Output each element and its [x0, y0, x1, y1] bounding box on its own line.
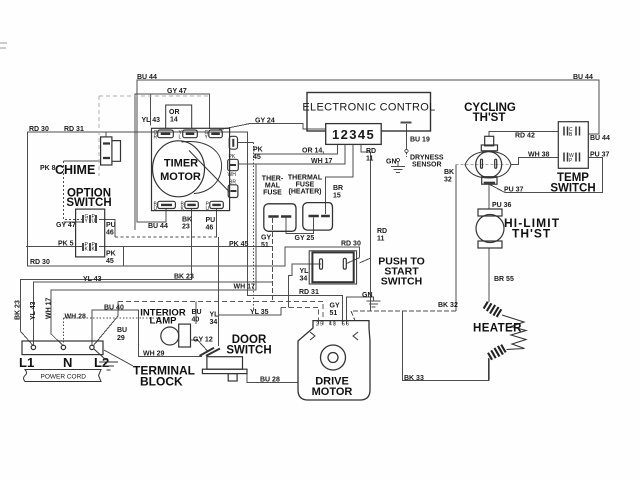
timer tiny pin letters	[154, 130, 237, 212]
svg-text:40: 40	[192, 317, 200, 324]
dashed console boundary	[99, 96, 209, 176]
svg-text:PU 37: PU 37	[504, 187, 524, 194]
terminal block TB	[22, 341, 133, 366]
svg-text:BU: BU	[192, 309, 202, 316]
svg-text:GN: GN	[362, 292, 373, 299]
svg-text:U: U	[154, 206, 158, 212]
svg-text:RD 30: RD 30	[341, 241, 361, 248]
svg-text:PK 8: PK 8	[40, 165, 56, 172]
svg-text:RD: RD	[366, 148, 376, 155]
svg-text:12345: 12345	[332, 127, 375, 142]
svg-text:23: 23	[182, 224, 190, 231]
svg-text:34: 34	[210, 319, 218, 326]
svg-text:46: 46	[206, 225, 214, 232]
svg-text:PU 36: PU 36	[492, 202, 512, 209]
svg-text:(HEATER): (HEATER)	[289, 189, 322, 196]
svg-text:51: 51	[330, 310, 338, 317]
wire GY 24 (timer to EC)	[218, 124, 326, 131]
svg-text:BU 44: BU 44	[148, 223, 168, 230]
wire BU 19 / dryness sensor	[406, 124, 408, 149]
svg-text:PU 37: PU 37	[590, 152, 610, 159]
svg-text:MOTOR: MOTOR	[160, 171, 201, 183]
wire PK 45 (option to timer)	[99, 246, 273, 248]
svg-text:YL: YL	[210, 312, 220, 319]
wire BK 32 (cycling th'st to motor)	[456, 164, 518, 166]
svg-text:GY 47: GY 47	[56, 222, 76, 229]
svg-text:BK: BK	[182, 217, 192, 224]
svg-text:5 6: 5 6	[342, 321, 349, 327]
svg-text:SWITCH: SWITCH	[550, 183, 595, 195]
svg-text:LAMP: LAMP	[150, 316, 178, 327]
wire BU 44 top (timer to temp switch)	[137, 80, 599, 222]
svg-text:51: 51	[261, 242, 269, 249]
svg-text:OR 14,: OR 14,	[302, 148, 324, 155]
EC connector 1 2 3 4 5	[326, 124, 382, 145]
cycling thermostat	[465, 136, 511, 184]
svg-text:YL 43: YL 43	[83, 276, 102, 283]
svg-text:WH 17: WH 17	[311, 158, 333, 165]
svg-text:U: U	[92, 219, 96, 225]
svg-text:TIMER: TIMER	[164, 158, 198, 170]
ground symbol terminal block	[94, 349, 118, 370]
svg-text:THERMAL: THERMAL	[288, 175, 323, 182]
timer top terminals	[158, 130, 223, 138]
svg-text:POWER CORD: POWER CORD	[41, 374, 87, 381]
svg-text:BR: BR	[333, 185, 343, 192]
svg-text:WH: WH	[228, 172, 237, 178]
timer bottom terminals	[158, 201, 224, 208]
svg-text:GY 24: GY 24	[255, 118, 275, 125]
svg-text:U: U	[206, 206, 210, 212]
svg-text:46: 46	[106, 230, 114, 237]
svg-text:34: 34	[300, 276, 308, 283]
wire RD 30 (chime to push-to-start)	[28, 132, 360, 266]
thermal fuse heater F2	[303, 203, 333, 231]
svg-text:45: 45	[253, 154, 261, 161]
svg-text:N: N	[63, 355, 72, 370]
ground symbol sensor	[391, 167, 405, 173]
wire GY 51 (thermal fuse to motor)	[272, 218, 274, 301]
svg-text:BK 23: BK 23	[15, 300, 22, 320]
wire WH 28 (N to lamp, dotted)	[63, 318, 160, 346]
wire lamp hot drop	[195, 301, 197, 324]
chime C1	[101, 137, 121, 165]
svg-text:BR: BR	[229, 180, 236, 186]
svg-text:RD 42: RD 42	[515, 133, 535, 140]
wire PU 46 (option switch to timer, dashed)	[99, 219, 115, 237]
wire BR 55 (hi-limit to heater)	[488, 248, 490, 302]
wire BK 23 (timer to terminal L1)	[20, 209, 191, 347]
svg-text:GN: GN	[386, 159, 397, 166]
svg-text:PK 5: PK 5	[58, 241, 74, 248]
svg-text:BK 32: BK 32	[438, 302, 458, 309]
svg-text:CHIME: CHIME	[55, 163, 95, 177]
wire GN motor ground	[347, 297, 374, 321]
svg-text:BK: BK	[444, 169, 454, 176]
svg-text:FUSE: FUSE	[296, 182, 315, 189]
svg-text:15: 15	[333, 193, 341, 200]
interior lamp	[161, 324, 191, 347]
wire RD 31 (chime to drive motor)	[106, 132, 342, 321]
electronic control box	[307, 93, 431, 132]
svg-text:11: 11	[366, 156, 374, 163]
svg-text:32: 32	[444, 177, 452, 184]
svg-text:11: 11	[377, 236, 385, 243]
svg-text:R: R	[154, 134, 158, 140]
svg-text:HEATER: HEATER	[473, 323, 522, 335]
svg-text:PK: PK	[229, 154, 236, 160]
timer right slots PK WH BR	[228, 136, 239, 197]
svg-text:GY 25: GY 25	[295, 235, 315, 242]
svg-text:THER-: THER-	[262, 176, 284, 183]
svg-text:DRYNESS: DRYNESS	[410, 155, 444, 162]
svg-text:BK 23: BK 23	[174, 274, 194, 281]
power cord banner	[24, 370, 102, 382]
svg-text:WH 29: WH 29	[143, 350, 165, 357]
svg-text:PK: PK	[253, 147, 263, 154]
svg-text:BK 33: BK 33	[404, 375, 424, 382]
push to start switch S3	[309, 251, 356, 284]
wire WH 17 (N to electronic control)	[51, 144, 345, 346]
svg-text:FUSE: FUSE	[263, 190, 282, 197]
drive motor M1	[298, 321, 370, 400]
svg-text:BU 28: BU 28	[260, 377, 280, 384]
svg-text:BU 40: BU 40	[104, 305, 124, 312]
wire PU 36 (cycling to hi-limit)	[488, 184, 490, 209]
wire GY 25 (fuse link)	[286, 218, 313, 234]
svg-text:TH'ST: TH'ST	[473, 112, 506, 124]
svg-text:PK 45: PK 45	[229, 241, 249, 248]
svg-text:GY 12: GY 12	[193, 337, 213, 344]
svg-text:4 3: 4 3	[329, 321, 336, 327]
OR 14 bracket	[166, 105, 192, 128]
wire BU 28 (door switch to motor)	[247, 373, 298, 383]
leader line to TERMINAL BLOCK	[104, 350, 133, 366]
svg-text:SWITCH: SWITCH	[226, 345, 271, 357]
heater R1	[483, 301, 526, 381]
svg-text:OR: OR	[169, 109, 180, 116]
svg-text:WH 17: WH 17	[234, 284, 256, 291]
svg-text:BU 44: BU 44	[573, 74, 593, 81]
wire BU 29 + long dash line to motor	[93, 301, 118, 346]
wire GY 47 (console to timer)	[135, 94, 209, 230]
svg-text:BU 44: BU 44	[590, 135, 610, 142]
svg-text:BLOCK: BLOCK	[140, 375, 183, 389]
svg-text:SWITCH: SWITCH	[66, 197, 111, 209]
svg-text:GY: GY	[330, 303, 340, 310]
door switch S4	[200, 348, 248, 381]
edge artifact	[0, 43, 7, 48]
wire GY 12 lamp to door switch	[191, 340, 208, 351]
svg-text:SENSOR: SENSOR	[412, 162, 442, 169]
wire BR 15 (fuse to EC terminal 3)	[326, 144, 353, 214]
temp switch S5	[558, 122, 588, 169]
svg-text:MAL: MAL	[265, 183, 281, 190]
svg-text:RD 31: RD 31	[64, 126, 84, 133]
wire PU 37 (temp switch to cycling bottom)	[489, 158, 602, 193]
svg-text:YL 35: YL 35	[250, 309, 269, 316]
wire RD 11 (EC terminal 4 to switch)	[359, 144, 370, 311]
svg-text:WH 17: WH 17	[46, 298, 53, 320]
svg-text:BU 44: BU 44	[137, 74, 157, 81]
wire YL 43 (L1 up and right)	[33, 282, 273, 346]
svg-text:WH 38: WH 38	[528, 152, 550, 159]
svg-text:L1: L1	[19, 355, 34, 370]
svg-text:RD 31: RD 31	[299, 289, 319, 296]
wire BU 40 (L2 to lamp/door area)	[92, 310, 202, 357]
svg-text:PU: PU	[106, 222, 116, 229]
option switch S2	[76, 209, 105, 257]
svg-text:L: L	[179, 134, 182, 140]
svg-text:MOTOR: MOTOR	[312, 386, 353, 398]
wire OR 14 (EC terminal 1)	[254, 144, 338, 154]
svg-text:2 5: 2 5	[316, 321, 323, 327]
thermal fuse F1	[264, 204, 296, 232]
svg-text:YL 43: YL 43	[142, 117, 161, 124]
svg-text:BU 19: BU 19	[410, 137, 430, 144]
svg-text:WH 28: WH 28	[65, 314, 87, 321]
svg-text:YL: YL	[300, 268, 310, 275]
svg-text:RD 30: RD 30	[30, 259, 50, 266]
svg-text:PU: PU	[206, 217, 216, 224]
timer motor circle	[153, 141, 205, 197]
svg-text:BU: BU	[117, 327, 127, 334]
svg-text:GY 47: GY 47	[167, 88, 187, 95]
wire PK 8 (chime to option switch, dotted)	[64, 160, 101, 162]
wire PK 5	[26, 246, 82, 248]
wire RD 42 (cycling to temp switch)	[489, 131, 559, 136]
svg-text:29: 29	[117, 335, 125, 342]
wire YL 34/35 (push-to-start to door switch and motor)	[289, 264, 321, 307]
wire BK 33 (heater to junction)	[403, 311, 489, 381]
wire WH 38	[511, 158, 558, 165]
hi-limit thermostat	[476, 209, 504, 248]
svg-text:14: 14	[170, 117, 178, 124]
svg-text:YL 43: YL 43	[30, 301, 37, 320]
ground symbol motor	[367, 301, 381, 307]
svg-text:BR 55: BR 55	[494, 276, 514, 283]
svg-text:ELECTRONIC CONTROL: ELECTRONIC CONTROL	[302, 102, 435, 114]
svg-text:45: 45	[106, 258, 114, 265]
svg-text:GY: GY	[261, 235, 271, 242]
svg-text:SWITCH: SWITCH	[381, 276, 422, 288]
svg-text:RD 30: RD 30	[29, 126, 49, 133]
timer motor block	[152, 105, 239, 211]
timer cam curve	[182, 142, 222, 194]
junction diagonal RD30 into switch	[347, 258, 360, 264]
svg-text:RD: RD	[377, 228, 387, 235]
svg-text:PK: PK	[106, 251, 116, 258]
svg-text:TH'ST: TH'ST	[512, 227, 551, 241]
wire GY 47 option switch stub	[64, 221, 83, 223]
